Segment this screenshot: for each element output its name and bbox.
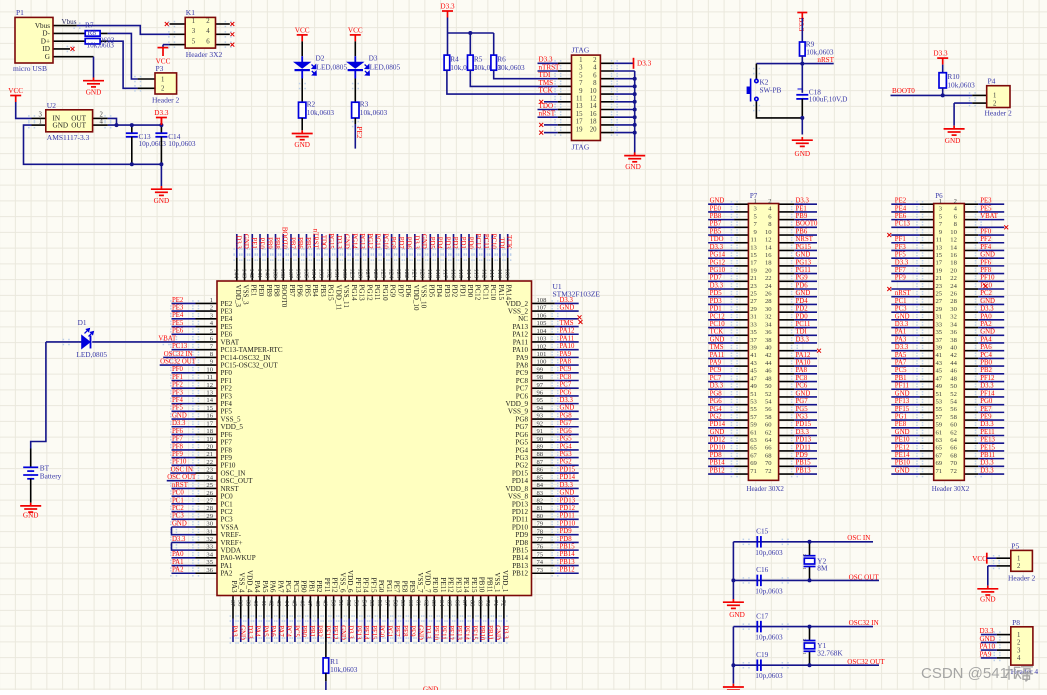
P6 pin 18	[964, 265, 978, 267]
svg-text:P8: P8	[1012, 618, 1020, 627]
P6 pin 7	[920, 226, 934, 228]
wire D- through R7 to P3 pin1	[53, 32, 108, 34]
LED D2 LED,0805	[301, 56, 303, 62]
svg-text:10: 10	[765, 229, 772, 236]
svg-text:13: 13	[576, 103, 583, 110]
U1 pin 9	[196, 364, 218, 366]
svg-text:PF7: PF7	[172, 436, 184, 443]
svg-text:D3.3: D3.3	[246, 625, 253, 639]
svg-text:D3.3: D3.3	[637, 60, 652, 68]
svg-text:84: 84	[537, 482, 544, 489]
svg-text:8: 8	[593, 80, 597, 87]
svg-text:123: 123	[395, 268, 402, 279]
svg-text:133: 133	[318, 268, 325, 279]
svg-text:K1: K1	[186, 8, 195, 17]
connector P4 Header 2	[987, 86, 1010, 108]
P7 pin 56	[779, 411, 795, 413]
P7 pin 12	[779, 242, 795, 244]
U1 pin 141	[259, 258, 261, 281]
svg-text:Battery: Battery	[40, 471, 62, 480]
svg-text:PE1: PE1	[796, 205, 807, 212]
svg-text:1: 1	[1017, 632, 1020, 639]
U1 pin 72	[503, 596, 505, 619]
svg-text:PE1: PE1	[249, 285, 257, 297]
svg-text:PB8: PB8	[273, 237, 280, 249]
P7 pin 19	[734, 273, 748, 275]
P7 pin 2	[779, 203, 795, 205]
svg-text:15: 15	[576, 111, 583, 118]
svg-text:D3.3: D3.3	[933, 50, 948, 58]
svg-text:PB7: PB7	[710, 221, 722, 228]
wire VCC to D2	[301, 41, 303, 56]
U2 pin stubs	[32, 117, 46, 119]
svg-text:56: 56	[765, 406, 772, 413]
svg-text:40: 40	[950, 344, 957, 351]
svg-text:57: 57	[936, 414, 943, 421]
svg-text:93: 93	[537, 413, 544, 420]
svg-text:102: 102	[537, 343, 547, 350]
P7 pin 27	[734, 303, 748, 305]
svg-text:LED,0805: LED,0805	[370, 62, 401, 71]
U1 pin 120	[422, 258, 424, 281]
svg-text:45: 45	[291, 600, 298, 607]
svg-text:20: 20	[590, 126, 597, 133]
svg-text:PF11: PF11	[895, 383, 909, 390]
U1 pin 95	[532, 403, 555, 405]
capacitor C13	[131, 125, 133, 133]
svg-text:67: 67	[461, 600, 468, 607]
P6 pin 10	[964, 234, 978, 236]
P6 pin 69	[920, 465, 934, 467]
svg-text:PC12: PC12	[710, 313, 726, 320]
svg-text:109: 109	[504, 268, 511, 279]
U1 pin 114	[468, 258, 470, 281]
U1 pin 26	[196, 495, 218, 497]
svg-text:69: 69	[476, 600, 483, 607]
svg-text:PB1: PB1	[308, 625, 315, 637]
svg-text:PD6: PD6	[404, 285, 412, 298]
resistor R3 10k,0603	[352, 102, 359, 118]
svg-text:PB8: PB8	[273, 285, 281, 298]
svg-text:VCC: VCC	[295, 26, 310, 34]
svg-text:D3.3: D3.3	[501, 625, 508, 639]
svg-text:D3.3: D3.3	[895, 321, 909, 328]
svg-text:2: 2	[206, 18, 210, 25]
svg-text:VSS_10: VSS_10	[420, 285, 428, 309]
U1 pin 123	[398, 258, 400, 281]
U1 pin 132	[329, 258, 331, 281]
svg-text:PF6: PF6	[172, 428, 184, 435]
svg-text:PF0: PF0	[172, 366, 184, 373]
svg-text:PA5: PA5	[895, 352, 907, 359]
svg-text:90: 90	[537, 436, 544, 443]
U1 pin 23	[196, 472, 218, 474]
svg-text:10: 10	[950, 229, 957, 236]
U1 pin 59	[402, 596, 404, 619]
svg-text:29: 29	[936, 306, 943, 313]
svg-text:PE4: PE4	[172, 312, 184, 319]
svg-text:55: 55	[368, 600, 375, 607]
svg-text:VCC: VCC	[8, 87, 23, 95]
wire 2 line	[733, 579, 879, 581]
svg-text:30: 30	[950, 306, 957, 313]
svg-text:144: 144	[233, 268, 240, 279]
svg-text:40: 40	[252, 600, 259, 607]
svg-text:PB14: PB14	[560, 551, 576, 558]
svg-text:80: 80	[537, 513, 544, 520]
svg-text:10k,0603: 10k,0603	[947, 81, 975, 90]
svg-text:PD1: PD1	[710, 306, 722, 313]
svg-text:14: 14	[206, 397, 213, 404]
svg-text:PF12: PF12	[331, 578, 339, 593]
svg-text:D3.3: D3.3	[796, 198, 810, 205]
JTAG pin 1 wire	[558, 62, 572, 64]
U1 pin 8	[196, 356, 218, 358]
P7 pin 31	[734, 319, 748, 321]
P7 pin 28	[779, 303, 795, 305]
svg-text:PG13: PG13	[358, 285, 366, 302]
U1 pin 73	[532, 572, 555, 574]
svg-text:71: 71	[936, 468, 943, 475]
U1 pin 1	[196, 302, 218, 304]
svg-text:4: 4	[100, 119, 104, 126]
P7 pin 3	[734, 211, 748, 213]
U1 pin 126	[375, 258, 377, 281]
svg-text:36: 36	[765, 329, 772, 336]
svg-text:137: 137	[287, 268, 294, 279]
svg-text:PB12: PB12	[560, 567, 576, 574]
svg-text:19: 19	[750, 267, 757, 274]
svg-text:49: 49	[750, 383, 757, 390]
svg-text:Header 30X2: Header 30X2	[932, 485, 970, 493]
P6 pin 31	[920, 319, 934, 321]
P7 pin 61	[734, 435, 748, 437]
wire U2 OUT join	[108, 118, 117, 125]
svg-text:PB0: PB0	[980, 360, 992, 367]
svg-text:34: 34	[950, 321, 957, 328]
svg-text:64: 64	[950, 437, 957, 444]
svg-text:Header 2: Header 2	[152, 96, 180, 105]
capacitor C18 100nF,10V,D	[801, 64, 803, 93]
U1 pin 43	[278, 596, 280, 619]
P6 pin 13	[920, 249, 934, 251]
ground GND below R2	[292, 130, 313, 139]
svg-text:17: 17	[206, 420, 213, 427]
P7 pin 35	[734, 334, 748, 336]
svg-text:108: 108	[537, 297, 548, 304]
svg-text:95: 95	[537, 397, 544, 404]
svg-text:121: 121	[411, 268, 418, 278]
P7 pin 17	[734, 265, 748, 267]
P6 pin 3	[920, 211, 934, 213]
svg-text:PG14: PG14	[350, 233, 357, 249]
svg-text:PG14: PG14	[350, 285, 358, 302]
svg-text:TDI: TDI	[796, 329, 808, 336]
svg-text:44: 44	[950, 360, 957, 367]
svg-text:PA6: PA6	[269, 581, 277, 593]
svg-text:PC7: PC7	[710, 375, 722, 382]
U1 pin 6	[196, 341, 218, 343]
JTAG pin 3 wire	[558, 70, 572, 72]
svg-text:PF5: PF5	[172, 405, 184, 412]
JTAG pin 9 wire	[558, 93, 572, 95]
svg-text:PE10: PE10	[431, 577, 439, 593]
U1 pin 76	[532, 549, 555, 551]
P6 pin 63	[920, 442, 934, 444]
svg-text:24: 24	[950, 283, 957, 290]
P6 pin 42	[964, 357, 978, 359]
U1 pin 108	[532, 302, 555, 304]
svg-text:62: 62	[950, 429, 957, 436]
svg-text:16: 16	[765, 252, 772, 259]
svg-text:PC8: PC8	[796, 375, 808, 382]
svg-text:GND: GND	[172, 412, 187, 419]
svg-text:6: 6	[593, 72, 597, 79]
svg-text:1: 1	[192, 18, 195, 25]
P7 pin 22	[779, 280, 795, 282]
svg-text:26: 26	[950, 291, 957, 298]
svg-text:50: 50	[765, 383, 772, 390]
svg-text:PE15: PE15	[470, 577, 478, 593]
U1 pin 128	[360, 258, 362, 281]
svg-text:53: 53	[750, 398, 757, 405]
svg-text:5: 5	[579, 72, 583, 79]
svg-text:4: 4	[593, 65, 597, 72]
P8 wire GND	[997, 641, 1011, 643]
P6 pin 26	[964, 296, 978, 298]
svg-text:65: 65	[750, 445, 757, 452]
svg-text:66: 66	[950, 445, 957, 452]
svg-text:24: 24	[206, 474, 213, 481]
power D3.3 above R10	[937, 58, 948, 65]
svg-text:45: 45	[750, 368, 757, 375]
wire VCC to D3	[354, 41, 356, 56]
svg-text:PC10: PC10	[490, 234, 497, 250]
svg-text:PB5: PB5	[303, 285, 311, 298]
svg-text:16: 16	[206, 413, 213, 420]
svg-text:nRST: nRST	[817, 56, 834, 64]
svg-text:PD3: PD3	[443, 285, 451, 298]
svg-text:60: 60	[407, 600, 414, 607]
P7 pin 1	[734, 203, 748, 205]
svg-text:GND: GND	[420, 234, 427, 249]
svg-text:14: 14	[950, 244, 957, 251]
U1 pin 107	[532, 310, 555, 312]
svg-text:89: 89	[537, 443, 544, 450]
svg-text:101: 101	[537, 351, 547, 358]
svg-text:PG10: PG10	[381, 233, 388, 249]
svg-text:70: 70	[950, 460, 957, 467]
P7 pin 23	[734, 288, 748, 290]
svg-text:70: 70	[484, 600, 491, 607]
P7 pin 70	[779, 465, 795, 467]
JTAG pin 18 wire	[572, 124, 615, 126]
svg-text:PG0: PG0	[980, 398, 993, 405]
U1 pin 57	[387, 596, 389, 619]
svg-text:39: 39	[936, 344, 943, 351]
svg-text:83: 83	[537, 490, 544, 497]
U1 pin 92	[532, 426, 555, 428]
K1 pin5 stub + VCC	[170, 44, 186, 46]
P6 pin 45	[920, 373, 934, 375]
U1 pin 94	[532, 410, 555, 412]
P7 pin 46	[779, 373, 795, 375]
svg-text:PB3: PB3	[319, 285, 327, 298]
svg-text:54: 54	[765, 398, 772, 405]
P7 pin 65	[734, 450, 748, 452]
svg-text:PC9: PC9	[710, 367, 722, 374]
svg-text:GND: GND	[172, 520, 187, 527]
U1 pin 2	[196, 310, 218, 312]
U1 pin 41	[263, 596, 265, 619]
U1 pin 14	[196, 403, 218, 405]
P6 pin 49	[920, 388, 934, 390]
svg-text:PE6: PE6	[172, 328, 184, 335]
U1 pin 25	[196, 487, 218, 489]
svg-text:PB7: PB7	[288, 237, 295, 249]
P7 pin 30	[779, 311, 795, 313]
svg-text:42: 42	[268, 600, 275, 607]
svg-text:PG5: PG5	[560, 436, 573, 443]
capacitor C17 10p,0603	[757, 621, 761, 633]
U1 pin 10	[196, 372, 218, 374]
wire gnd rail	[732, 542, 734, 599]
svg-text:5: 5	[192, 38, 196, 45]
P6 pin 8	[964, 226, 978, 228]
svg-text:PB9: PB9	[265, 237, 272, 249]
wire R9 to nRST node	[801, 56, 803, 64]
svg-text:63: 63	[430, 600, 437, 607]
svg-text:VSS_7: VSS_7	[416, 572, 424, 593]
svg-text:PA7: PA7	[277, 625, 284, 637]
pin ID stub (unconnected)	[53, 48, 70, 50]
svg-text:10p,0603: 10p,0603	[755, 671, 783, 680]
P7 pin 33	[734, 327, 748, 329]
svg-text:58: 58	[765, 414, 772, 421]
P7 pin 49	[734, 388, 748, 390]
svg-text:TCK: TCK	[710, 329, 724, 336]
svg-text:GND: GND	[86, 88, 102, 96]
svg-text:42: 42	[950, 352, 957, 359]
svg-text:PC3: PC3	[895, 306, 907, 313]
svg-text:PF11: PF11	[323, 578, 331, 593]
svg-text:28: 28	[765, 298, 772, 305]
svg-text:47: 47	[306, 600, 313, 607]
svg-text:PA1: PA1	[895, 329, 906, 336]
svg-text:10p,0603: 10p,0603	[755, 586, 783, 595]
P6 pin 40	[964, 350, 978, 352]
svg-text:66: 66	[765, 445, 772, 452]
U1 pin 110	[499, 258, 501, 281]
svg-text:C15: C15	[756, 527, 769, 536]
P6 pin 38	[964, 342, 978, 344]
svg-text:PA5: PA5	[261, 581, 269, 593]
svg-text:VDD_1: VDD_1	[501, 570, 509, 593]
U1 pin 131	[336, 258, 338, 281]
wire VCC to P5 pin1	[987, 557, 996, 559]
svg-text:nTRST: nTRST	[312, 229, 319, 250]
svg-text:PB4: PB4	[311, 285, 319, 298]
svg-text:nRST: nRST	[172, 482, 189, 489]
P7 pin 60	[779, 427, 795, 429]
U1 pin 50	[333, 596, 335, 619]
svg-text:68: 68	[469, 600, 476, 607]
svg-text:VBAT: VBAT	[158, 335, 177, 342]
svg-text:59: 59	[936, 422, 943, 429]
P6 pin 22	[964, 280, 978, 282]
svg-text:PD10: PD10	[710, 444, 726, 451]
svg-text:17: 17	[750, 260, 757, 267]
svg-text:PE13: PE13	[980, 437, 995, 444]
svg-text:GND: GND	[980, 329, 995, 336]
U1 pin 122	[406, 258, 408, 281]
P7 pin 11	[734, 242, 748, 244]
svg-text:D3.3: D3.3	[172, 420, 186, 427]
ground GND under P1	[83, 78, 104, 87]
svg-text:VDD_10: VDD_10	[412, 285, 420, 311]
svg-text:111: 111	[488, 269, 495, 278]
svg-text:PC5: PC5	[292, 580, 300, 593]
svg-text:PE10: PE10	[432, 625, 439, 640]
U1 pin 138	[282, 258, 284, 281]
svg-text:PF0: PF0	[980, 228, 992, 235]
svg-text:GND: GND	[339, 625, 346, 640]
svg-text:118: 118	[434, 269, 441, 279]
svg-text:D3.3: D3.3	[412, 235, 419, 249]
svg-text:PC5: PC5	[292, 625, 299, 637]
svg-text:PE7: PE7	[393, 581, 401, 593]
U1 pin 42	[271, 596, 273, 619]
svg-text:63: 63	[750, 437, 757, 444]
svg-text:50: 50	[950, 383, 957, 390]
P7 pin 59	[734, 427, 748, 429]
svg-text:78: 78	[537, 528, 544, 535]
svg-text:PD14: PD14	[560, 474, 576, 481]
JTAG pin 2 wire	[572, 62, 615, 64]
svg-text:GND: GND	[625, 163, 641, 171]
svg-text:C16: C16	[756, 565, 769, 574]
svg-text:10k,0603: 10k,0603	[87, 41, 115, 50]
svg-text:PB10: PB10	[478, 625, 485, 641]
svg-text:4: 4	[206, 28, 210, 35]
U1 pin 16	[196, 418, 218, 420]
P6 pin 72	[964, 473, 978, 475]
P7 pin 26	[779, 296, 795, 298]
resistor R9 10k,0603	[800, 42, 806, 56]
svg-text:PA5: PA5	[261, 625, 268, 637]
JTAG pin 5 wire	[558, 78, 572, 80]
svg-text:56: 56	[376, 600, 383, 607]
svg-text:54: 54	[360, 600, 367, 607]
svg-text:P5: P5	[1011, 541, 1019, 550]
svg-text:PF3: PF3	[895, 244, 907, 251]
svg-text:OSC OUT: OSC OUT	[167, 474, 197, 481]
svg-text:Header 2: Header 2	[1008, 573, 1036, 582]
U1 pin 15	[196, 410, 218, 412]
P6 pin 17	[920, 265, 934, 267]
P7 pin 4	[779, 211, 795, 213]
svg-text:PG12: PG12	[710, 259, 726, 266]
svg-text:16: 16	[590, 111, 597, 118]
P6 pin 25	[920, 296, 934, 298]
JTAG pin 19 wire	[558, 132, 572, 134]
svg-text:PG9: PG9	[389, 237, 396, 250]
svg-text:TDO: TDO	[319, 235, 326, 249]
U1 pin 33	[196, 549, 218, 551]
svg-text:1: 1	[754, 198, 757, 205]
svg-text:52: 52	[765, 391, 772, 398]
svg-text:44: 44	[765, 360, 772, 367]
